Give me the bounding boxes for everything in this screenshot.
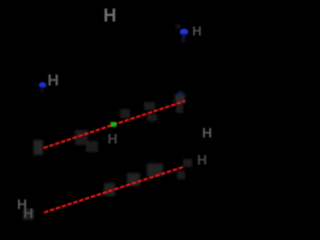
green measurement label dot on line 1 [111,122,117,127]
bond cluster at right end of measurement line 2 [177,171,185,179]
chain atom blob above line 2 (right) [147,164,163,177]
faint atom smudge left of N2 [176,24,180,29]
svg-text:H: H [202,125,212,141]
chain atom blob under line 1 (left) [75,130,88,145]
svg-text:H: H [23,205,33,221]
bond cluster above right end of line 2 [183,159,192,167]
svg-text:H: H [197,152,207,168]
chain atom blob under line 1 (mid-right) [120,109,130,118]
chain atom blob under line 2 (left) [104,183,115,196]
measurement line 2 (red dashed) [44,167,183,213]
bond stub below N2 [182,34,185,42]
svg-text:H: H [108,131,118,147]
bond tail below right end of line 1 [176,104,183,113]
bond stub below N1 [41,87,44,93]
bond cluster under bottom-left H labels [23,209,34,220]
chain atom blob above line 2 (mid) [127,173,140,186]
chain atom blob below line 1 [147,114,157,121]
chain atom blob under line 1 (mid-left) [86,141,98,152]
svg-text:H: H [103,6,116,26]
bond cluster at right end of measurement line 1 [175,94,185,104]
chain atom blob above line 1 [144,102,155,110]
svg-text:H: H [47,73,59,90]
faint blue atom at right end of line 1 [178,91,184,96]
svg-text:H: H [192,24,201,39]
nitrogen atom N2 (top-right molecule) [180,29,188,35]
nitrogen atom N1 (left molecule) [39,82,46,88]
bond cluster at left end of measurement line 1 [34,140,44,155]
measurement line 1 (red dashed) [44,101,186,148]
